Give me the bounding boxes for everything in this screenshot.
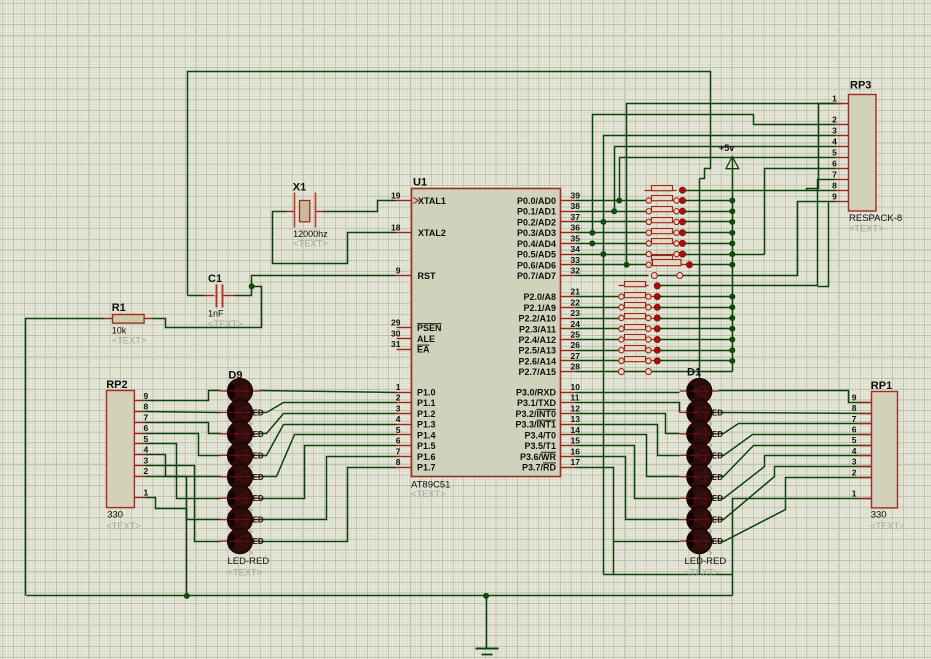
svg-text:3: 3 xyxy=(832,126,837,136)
svg-text:4: 4 xyxy=(832,137,837,147)
svg-text:P0.5/AD5: P0.5/AD5 xyxy=(517,250,556,260)
resistor array element P0.1 xyxy=(649,211,683,213)
svg-text:P2.2/A10: P2.2/A10 xyxy=(518,314,556,324)
wire RP2 pin1 common to ground rail xyxy=(146,498,187,596)
svg-text:3: 3 xyxy=(396,403,401,413)
svg-text:16: 16 xyxy=(571,446,581,456)
svg-text:P1.2: P1.2 xyxy=(417,409,436,419)
wire LED D9-5 to P1.4 (diagonal) xyxy=(260,435,397,477)
svg-text:P3.5/T1: P3.5/T1 xyxy=(524,441,556,451)
wire top rail from C1 node to D1 column xyxy=(188,72,711,296)
resistor array element P0.2 xyxy=(649,221,683,223)
svg-text:330: 330 xyxy=(871,510,887,521)
svg-text:6: 6 xyxy=(832,159,837,169)
svg-text:RESPACK-8: RESPACK-8 xyxy=(849,213,902,224)
LED D9-5 xyxy=(220,476,229,478)
svg-text:ED: ED xyxy=(253,408,264,417)
node +5v bus junctions on P2 rows xyxy=(729,294,735,300)
svg-text:12000hz: 12000hz xyxy=(293,229,328,239)
svg-text:8: 8 xyxy=(832,181,837,191)
svg-text:23: 23 xyxy=(571,308,581,318)
svg-text:P3.2/INT0: P3.2/INT0 xyxy=(515,409,556,419)
svg-text:<TEXT>: <TEXT> xyxy=(685,568,720,578)
svg-text:6: 6 xyxy=(144,423,149,433)
svg-text:ED: ED xyxy=(253,516,264,525)
svg-text:P3.3/INT1: P3.3/INT1 xyxy=(515,420,556,430)
U1 left pin stubs xyxy=(397,200,412,202)
svg-text:P1.5: P1.5 xyxy=(417,441,436,451)
svg-text:26: 26 xyxy=(571,340,581,350)
svg-text:ED: ED xyxy=(712,516,723,525)
wire +5v bus end to P2.7 row xyxy=(649,371,733,373)
U1 XTAL1 clock chevron xyxy=(414,198,419,204)
wire P0 pull-up outputs to +5v bus xyxy=(683,200,733,202)
resistor array element P2.5 xyxy=(622,350,658,352)
svg-text:1: 1 xyxy=(832,94,837,104)
svg-text:3: 3 xyxy=(144,455,149,465)
svg-text:RP3: RP3 xyxy=(850,80,871,92)
LED D1-5 xyxy=(680,476,689,478)
wire P3.0 to LED D1-1 xyxy=(576,392,680,394)
resistor array element P2.1 xyxy=(622,307,658,309)
wire RP2 pin4 to LED D9-5 xyxy=(146,455,221,477)
svg-text:12: 12 xyxy=(571,403,581,413)
wire P2 array common row extension to pin7 riser xyxy=(733,285,818,287)
svg-text:P3.1/TXD: P3.1/TXD xyxy=(517,398,557,408)
svg-text:25: 25 xyxy=(571,330,581,340)
svg-text:29: 29 xyxy=(391,318,401,328)
svg-text:27: 27 xyxy=(571,351,581,361)
svg-text:ALE: ALE xyxy=(417,334,435,344)
wire P3.7 to LED D1-8 xyxy=(576,468,680,542)
svg-text:7: 7 xyxy=(832,170,837,180)
svg-text:34: 34 xyxy=(571,244,581,254)
RP1 pin stubs and numbers xyxy=(859,402,872,404)
LED D9-8 xyxy=(220,540,229,542)
LED D9-3 xyxy=(220,433,229,435)
svg-text:13: 13 xyxy=(571,414,581,424)
svg-text:36: 36 xyxy=(571,223,581,233)
wire RP3 pin1 net riser tapping P0.6 xyxy=(627,104,836,265)
wire extra drop below LED D1-8 wire xyxy=(613,542,615,575)
svg-text:31: 31 xyxy=(391,339,401,349)
svg-text:ED: ED xyxy=(253,451,264,460)
LED D1-6 xyxy=(680,497,689,499)
wire secondary drop from RP3 pin9 row to common row xyxy=(818,202,829,287)
wire R1 left lead to ground rail xyxy=(26,319,105,596)
svg-text:4: 4 xyxy=(144,445,149,455)
svg-text:330: 330 xyxy=(107,509,123,520)
svg-text:X1: X1 xyxy=(293,182,306,194)
svg-text:XTAL2: XTAL2 xyxy=(418,228,446,238)
svg-text:10k: 10k xyxy=(112,326,127,336)
LED D9-4 xyxy=(220,454,229,456)
wire LED D9-2 to P1.1 (diagonal) xyxy=(260,403,397,413)
wire P3.6 to LED D1-7 xyxy=(576,457,680,520)
svg-text:21: 21 xyxy=(571,287,581,297)
svg-text:P2.0/A8: P2.0/A8 xyxy=(523,292,556,302)
node +5v bus junctions on P0 rows xyxy=(729,198,735,204)
wire RP3 pin7 riser from P2 array common row xyxy=(818,180,836,286)
wire bottom-right link to ground rail xyxy=(604,574,733,576)
wire P3.3 to LED D1-4 xyxy=(576,425,680,456)
svg-text:2: 2 xyxy=(396,393,401,403)
RP3 pin stubs and numbers xyxy=(836,103,849,105)
wire LED D1-2 to RP1 pin8 xyxy=(719,413,872,414)
resistor array element P2.2 xyxy=(622,318,658,320)
svg-text:5: 5 xyxy=(144,434,149,444)
wire RP2 pin7 to LED D9-3 xyxy=(146,423,221,434)
svg-text:R1: R1 xyxy=(112,302,126,314)
wire LED D1-7 to RP1 pin3 (diagonal+riser) xyxy=(719,467,872,520)
svg-text:11: 11 xyxy=(571,393,580,403)
wire LED D1-1 to RP1 pin9 xyxy=(719,391,872,403)
wire RP2 pin6 to LED D9-4 xyxy=(146,434,221,456)
wire RP3 pin1 right-side drop xyxy=(819,103,842,105)
LED D1-7 xyxy=(680,519,689,521)
svg-text:39: 39 xyxy=(571,191,581,201)
svg-text:<TEXT>: <TEXT> xyxy=(208,319,243,329)
svg-text:ED: ED xyxy=(253,494,264,503)
LED D1-2 xyxy=(680,411,689,413)
svg-text:ED: ED xyxy=(712,473,723,482)
svg-text:P0.4/AD4: P0.4/AD4 xyxy=(517,239,556,249)
svg-text:2: 2 xyxy=(852,467,857,477)
resistor array element P0.5 displaced body xyxy=(652,256,673,261)
svg-text:24: 24 xyxy=(571,319,581,329)
wire LED D1-5 to RP1 pin5 (diagonal) xyxy=(719,446,872,477)
svg-text:P1.6: P1.6 xyxy=(417,452,436,462)
svg-text:P3.6/WR: P3.6/WR xyxy=(520,452,557,462)
svg-text:8: 8 xyxy=(396,457,401,467)
svg-text:ED: ED xyxy=(712,408,723,417)
node taps on P0 rows xyxy=(616,198,622,204)
svg-text:P2.1/A9: P2.1/A9 xyxy=(523,303,556,313)
wire P2 pin rows from chip to pull-up array xyxy=(576,296,622,298)
svg-text:EA: EA xyxy=(417,345,430,355)
svg-text:P1.3: P1.3 xyxy=(417,420,436,430)
svg-text:3: 3 xyxy=(852,457,857,467)
LED D9-2 xyxy=(220,411,229,413)
resistor array element P2.7 terminals xyxy=(618,369,624,375)
node RP2 common on ground rail xyxy=(184,593,190,599)
svg-text:9: 9 xyxy=(832,192,837,202)
svg-text:6: 6 xyxy=(852,425,857,435)
resistor array element P2.6 xyxy=(622,360,658,362)
svg-text:RP2: RP2 xyxy=(106,379,127,391)
resistor pack RP2 330 xyxy=(107,391,135,508)
svg-text:P1.1: P1.1 xyxy=(417,398,436,408)
svg-text:1nF: 1nF xyxy=(208,309,224,319)
wire LED D9-4 to P1.3 (diagonal) xyxy=(260,425,397,456)
svg-text:P1.4: P1.4 xyxy=(417,430,436,440)
wire RP2 pin8 to LED D9-2 xyxy=(146,412,221,413)
svg-text:LED-RED: LED-RED xyxy=(228,556,270,567)
svg-text:30: 30 xyxy=(391,328,401,338)
wire P3.4 to LED D1-5 xyxy=(576,435,680,477)
svg-text:2: 2 xyxy=(144,466,149,476)
resistor array element P0.4 xyxy=(649,243,683,245)
svg-text:7: 7 xyxy=(852,414,857,424)
svg-text:8: 8 xyxy=(852,403,857,413)
wire LED D9-7 to P1.6 xyxy=(260,457,397,520)
svg-text:28: 28 xyxy=(571,362,581,372)
svg-text:<TEXT>: <TEXT> xyxy=(293,239,328,249)
svg-text:ED: ED xyxy=(253,473,264,482)
wire crystal left loop to XTAL2 pin xyxy=(273,212,397,264)
wire P0 pin rows from chip to pull-up array xyxy=(576,200,649,202)
svg-text:ED: ED xyxy=(712,430,723,439)
svg-text:8: 8 xyxy=(144,402,149,412)
svg-text:P0.3/AD3: P0.3/AD3 xyxy=(517,228,556,238)
svg-text:5: 5 xyxy=(396,425,401,435)
svg-text:22: 22 xyxy=(571,297,581,307)
wire crystal right to XTAL1 pin xyxy=(323,201,397,212)
resistor array element P2.4 xyxy=(622,339,658,341)
svg-text:5: 5 xyxy=(852,435,857,445)
LED D1-4 xyxy=(680,454,689,456)
svg-text:P2.3/A11: P2.3/A11 xyxy=(519,324,556,334)
svg-text:P2.7/A15: P2.7/A15 xyxy=(518,367,556,377)
svg-text:P1.7: P1.7 xyxy=(417,463,436,473)
LED D9-6 xyxy=(220,497,229,499)
wire RP3 pin8 row from array top resistor xyxy=(683,190,836,192)
wire RP2 pin5 to LED D9-6 xyxy=(146,444,221,499)
wire R1 right lead to RST node xyxy=(153,287,262,328)
svg-text:9: 9 xyxy=(396,265,401,275)
wire LED D1-8 to RP1 pin2 (diagonal+riser) xyxy=(719,478,872,542)
svg-text:<TEXT>: <TEXT> xyxy=(411,489,446,499)
node ground rail junctions xyxy=(483,593,489,599)
resistor array element P0.3 xyxy=(649,232,683,234)
LED D1-8 xyxy=(680,540,689,542)
ground xyxy=(486,596,488,649)
svg-text:PSEN: PSEN xyxy=(417,323,442,333)
svg-text:U1: U1 xyxy=(413,177,427,189)
wire LED D1-3 to RP1 pin7 (diagonal) xyxy=(719,424,872,434)
wire P3.2 to LED D1-3 xyxy=(576,414,680,434)
wire RP2 pin3 to LED D9-8 xyxy=(146,466,221,542)
svg-text:1: 1 xyxy=(852,488,857,498)
svg-text:<TEXT>: <TEXT> xyxy=(106,521,141,531)
power +5v symbol xyxy=(732,159,734,372)
LED D1-1 xyxy=(680,390,689,392)
wire C1 right lead to RST junction and RST pin xyxy=(235,276,397,296)
svg-text:17: 17 xyxy=(571,457,581,467)
svg-text:P3.4/T0: P3.4/T0 xyxy=(524,430,556,440)
resistor array element row0 (common feed) xyxy=(619,285,649,287)
resistor array element P2.3 xyxy=(622,328,658,330)
resistor array element P2.0 xyxy=(622,296,658,298)
wire RP3 pin5 net riser tapping P0.0 xyxy=(620,158,836,201)
svg-text:P3.7/RD: P3.7/RD xyxy=(522,463,557,473)
svg-text:32: 32 xyxy=(571,266,581,276)
wire LED D9-3 to P1.2 (diagonal) xyxy=(260,414,397,434)
node RST junction xyxy=(249,283,255,289)
wire P0.5 row extension to RP3 pin6 riser xyxy=(733,254,765,256)
svg-text:+5v: +5v xyxy=(719,143,734,153)
resistor array element row0 (RP3 pin8 feed) xyxy=(645,190,677,192)
svg-text:4: 4 xyxy=(396,414,401,424)
wire RP1 pin1 common down to ground rail xyxy=(733,499,872,596)
svg-text:1: 1 xyxy=(144,488,149,498)
svg-text:7: 7 xyxy=(144,412,149,422)
wire RP2 pin2 to LED D9-7 xyxy=(146,477,221,520)
wire LED D1-4 to RP1 pin6 (diagonal) xyxy=(719,435,872,456)
svg-text:P0.2/AD2: P0.2/AD2 xyxy=(517,217,556,227)
svg-text:P0.7/AD7: P0.7/AD7 xyxy=(517,271,556,281)
LED D1-3 xyxy=(680,433,689,435)
svg-text:ED: ED xyxy=(712,451,723,460)
svg-text:P3.0/RXD: P3.0/RXD xyxy=(516,388,557,398)
capacitor C1 xyxy=(205,295,215,297)
svg-text:14: 14 xyxy=(571,425,581,435)
wire LED D9-6 to P1.5 xyxy=(260,446,397,499)
svg-text:ED: ED xyxy=(253,537,264,546)
RP2 pin stubs and numbers xyxy=(135,400,146,402)
svg-text:XTAL1: XTAL1 xyxy=(418,196,446,206)
svg-text:10: 10 xyxy=(571,382,581,392)
resistor array element P0.6 long body xyxy=(646,262,651,267)
svg-text:35: 35 xyxy=(571,233,581,243)
svg-text:15: 15 xyxy=(571,436,581,446)
svg-text:ED: ED xyxy=(712,537,723,546)
svg-text:19: 19 xyxy=(391,191,401,201)
svg-text:<TEXT>: <TEXT> xyxy=(870,521,905,531)
wire LED D9-1 to P1.0 xyxy=(260,391,397,393)
svg-text:P0.6/AD6: P0.6/AD6 xyxy=(517,260,556,270)
svg-text:6: 6 xyxy=(396,436,401,446)
svg-text:4: 4 xyxy=(852,446,857,456)
svg-text:ED: ED xyxy=(253,430,264,439)
wire RP3 pin2 net riser tapping P0.3 xyxy=(593,115,836,233)
svg-text:9: 9 xyxy=(144,391,149,401)
crystal X1 xyxy=(287,211,295,213)
U1 right pin stubs xyxy=(561,200,576,202)
svg-text:37: 37 xyxy=(571,212,581,222)
op-amp U1 AT89C51 microcontroller body xyxy=(412,189,561,477)
wire LED D1-6 to RP1 pin4 (diagonal+riser) xyxy=(719,456,872,499)
svg-text:33: 33 xyxy=(571,255,581,265)
resistor pack RP1 330 xyxy=(872,392,898,508)
svg-text:P1.0: P1.0 xyxy=(417,388,436,398)
svg-text:9: 9 xyxy=(852,392,857,402)
LED D9-7 xyxy=(220,519,229,521)
svg-text:1: 1 xyxy=(396,382,401,392)
wire P2 pull-up outputs to +5v bus xyxy=(658,285,733,287)
wire RP3 pin4 net riser tapping P0.1 xyxy=(615,147,836,212)
svg-text:RP1: RP1 xyxy=(871,380,892,392)
svg-text:LED-RED: LED-RED xyxy=(685,556,727,567)
svg-text:ED: ED xyxy=(712,494,723,503)
wire P0.7 row to RP3 pin9 riser xyxy=(655,202,836,276)
svg-text:38: 38 xyxy=(571,201,581,211)
wire D1 column vertical through LEDs to bottom link xyxy=(699,179,701,575)
svg-text:P0.0/AD0: P0.0/AD0 xyxy=(517,196,556,206)
wire ground rail xyxy=(27,595,733,597)
wire LED D9-8 to P1.7 xyxy=(260,468,397,542)
resistor pack RP3 RESPACK-8 xyxy=(849,95,877,212)
svg-text:<TEXT>: <TEXT> xyxy=(849,224,884,234)
svg-text:C1: C1 xyxy=(208,273,222,285)
resistor R1 10k xyxy=(105,318,113,320)
resistor array element P0.0 xyxy=(649,200,683,202)
wire RP3 pin3 net riser tapping P0.2 xyxy=(604,136,836,575)
resistor array element P0.5 xyxy=(649,254,683,256)
svg-text:5: 5 xyxy=(832,148,837,158)
LED D9-1 xyxy=(220,390,229,392)
svg-text:<TEXT>: <TEXT> xyxy=(112,336,147,346)
wire RP3 pin6 riser from P0.5 extension xyxy=(765,169,836,255)
svg-text:7: 7 xyxy=(396,446,401,456)
svg-text:D1: D1 xyxy=(687,367,701,379)
resistor array element P0.7 terminals xyxy=(651,273,657,279)
svg-text:2: 2 xyxy=(832,115,837,125)
wire RP2 pin9 to LED D9-1 xyxy=(146,391,221,401)
svg-text:P2.6/A14: P2.6/A14 xyxy=(518,356,556,366)
svg-text:P0.1/AD1: P0.1/AD1 xyxy=(517,207,556,217)
wire P3.5 to LED D1-6 xyxy=(576,446,680,499)
svg-text:P2.4/A12: P2.4/A12 xyxy=(518,335,556,345)
wire P3.1 to LED D1-2 xyxy=(576,403,680,413)
svg-text:RST: RST xyxy=(418,271,437,281)
svg-text:18: 18 xyxy=(391,223,401,233)
wire C1 left lead from top-rail vertical xyxy=(188,295,205,297)
svg-text:P2.5/A13: P2.5/A13 xyxy=(518,346,556,356)
svg-text:<TEXT>: <TEXT> xyxy=(228,568,263,578)
